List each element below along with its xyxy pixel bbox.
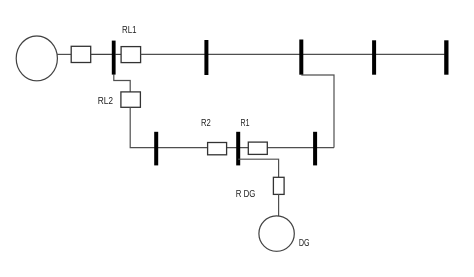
resistor RL2 xyxy=(121,92,140,107)
resistor R DG xyxy=(273,177,284,194)
svg-text:R DG: R DG xyxy=(236,189,256,200)
generator DG xyxy=(259,216,294,251)
svg-text:R1: R1 xyxy=(241,118,250,129)
wire B1 to RL1 xyxy=(116,53,122,55)
bus LB3 xyxy=(313,132,317,166)
bus LB2 xyxy=(236,132,240,166)
wire R DG to DG xyxy=(278,194,280,216)
resistor RL1 xyxy=(121,47,141,63)
wire source to breaker xyxy=(57,53,71,55)
bus B3 xyxy=(299,40,303,75)
wire breaker to bus B1 xyxy=(91,53,112,55)
svg-text:DG: DG xyxy=(299,238,310,249)
svg-text:RL2: RL2 xyxy=(98,96,114,107)
resistor R1 xyxy=(248,142,267,154)
svg-text:RL1: RL1 xyxy=(122,25,137,36)
wire RL2 down to lower feeder xyxy=(130,107,334,147)
source generator G (utility grid) xyxy=(16,36,57,81)
bus B2 xyxy=(204,40,208,75)
resistor R2 xyxy=(208,143,227,155)
bus B4 xyxy=(372,40,376,74)
bus B1 xyxy=(112,41,116,75)
wire B3 loop down to lower feeder xyxy=(301,75,334,148)
wire main feeder xyxy=(141,53,445,55)
bus LB1 xyxy=(154,132,158,166)
wire B1 down to RL2 xyxy=(114,75,130,92)
svg-text:R2: R2 xyxy=(201,118,211,129)
breaker square xyxy=(71,46,91,62)
wire LB2 branch to R DG xyxy=(238,159,278,177)
bus B5 xyxy=(444,40,448,74)
